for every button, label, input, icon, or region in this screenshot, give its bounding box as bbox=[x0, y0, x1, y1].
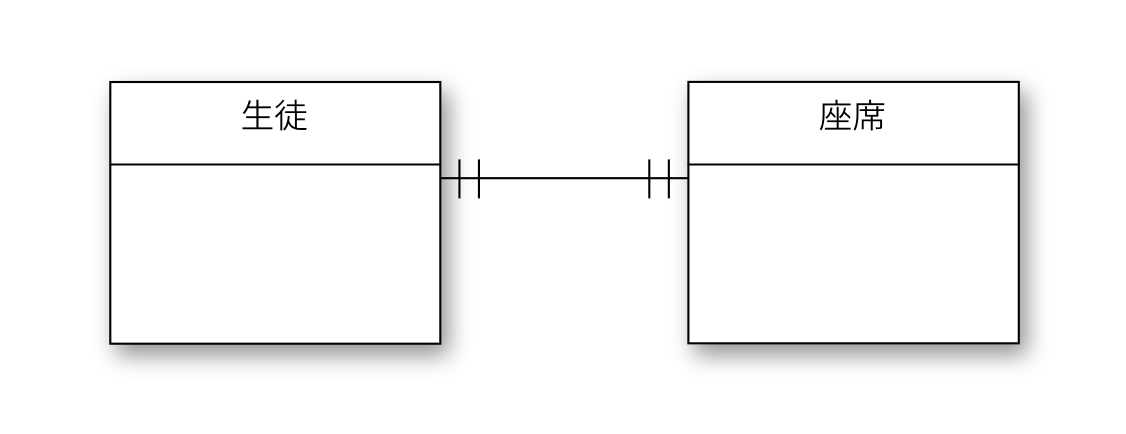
cardinality tick 2 (near 生徒) bbox=[478, 159, 480, 198]
entity name text 座席 bbox=[820, 100, 884, 131]
entity box 座席 (seat) bbox=[688, 82, 1018, 343]
entity name text 生徒 bbox=[242, 100, 306, 131]
cardinality tick 1 (near 生徒) bbox=[458, 159, 460, 198]
relationship wire between 生徒 and 座席 bbox=[440, 177, 688, 179]
header divider line of 座席 box bbox=[687, 163, 1020, 165]
cardinality tick 4 (near 座席) bbox=[668, 159, 670, 198]
cardinality tick 3 (near 座席) bbox=[648, 159, 650, 198]
header divider line of 生徒 box bbox=[109, 163, 441, 165]
entity box 生徒 (student) bbox=[110, 82, 440, 344]
